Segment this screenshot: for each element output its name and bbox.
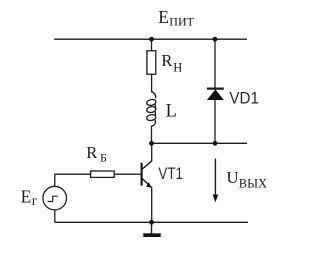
svg-text:Б: Б [100, 150, 107, 164]
svg-text:R: R [161, 51, 172, 70]
wire middle line to the right edge [152, 142, 248, 144]
resistor Rn body [147, 51, 156, 74]
node junction dot collector / middle line [149, 141, 154, 146]
ground bar [143, 233, 160, 237]
inductor L coil [152, 92, 156, 99]
wire bottom rail [55, 221, 248, 223]
svg-text:ВЫХ: ВЫХ [239, 176, 267, 190]
svg-text:U: U [226, 168, 238, 187]
wire from inductor L to collector node [151, 126, 153, 144]
transistor VT1 base bar [141, 163, 143, 186]
svg-text:г: г [32, 194, 38, 209]
node junction dot top rail / Rn [149, 37, 154, 42]
svg-text:VD1: VD1 [229, 88, 259, 107]
wire emitter vertical down to bottom rail [151, 188, 153, 223]
wire source top vertical [54, 174, 56, 187]
transistor VT1 emitter diagonal [142, 178, 152, 188]
wire VD1 anode down to middle line [214, 100, 216, 144]
wire top rail down to VD1 cathode [214, 39, 216, 88]
svg-text:Е: Е [158, 7, 169, 27]
svg-text:ПИТ: ПИТ [169, 14, 194, 28]
output voltage arrow Uout [214, 159, 216, 201]
svg-text:R: R [86, 143, 97, 162]
svg-text:L: L [166, 102, 177, 122]
transistor VT1 emitter arrowhead [146, 182, 151, 188]
source EG circle [43, 186, 67, 210]
wire base from resistor RB to base bar [114, 173, 140, 175]
ground stub wire [151, 222, 153, 233]
wire top supply rail [54, 38, 247, 40]
wire from resistor Rn to inductor L [151, 74, 153, 92]
resistor RB body [91, 171, 115, 177]
wire from top rail to resistor Rn [151, 39, 153, 51]
diode VD1 triangle (anode, pointing up) [207, 89, 224, 100]
node junction dot top rail / VD1 [213, 37, 218, 42]
source EG step symbol [48, 196, 58, 201]
svg-text:VT1: VT1 [158, 164, 183, 183]
wire from source top to resistor RB [54, 173, 90, 175]
svg-text:Н: Н [173, 61, 182, 75]
wire source bottom vertical [54, 210, 56, 222]
node junction dot bottom rail / emitter [149, 220, 154, 225]
wire collector vertical [151, 143, 153, 161]
diode VD1 cathode bar [207, 87, 224, 89]
transistor VT1 collector diagonal [142, 161, 152, 170]
svg-text:Е: Е [21, 186, 32, 206]
node junction dot middle line / VD1 bottom [213, 141, 218, 146]
